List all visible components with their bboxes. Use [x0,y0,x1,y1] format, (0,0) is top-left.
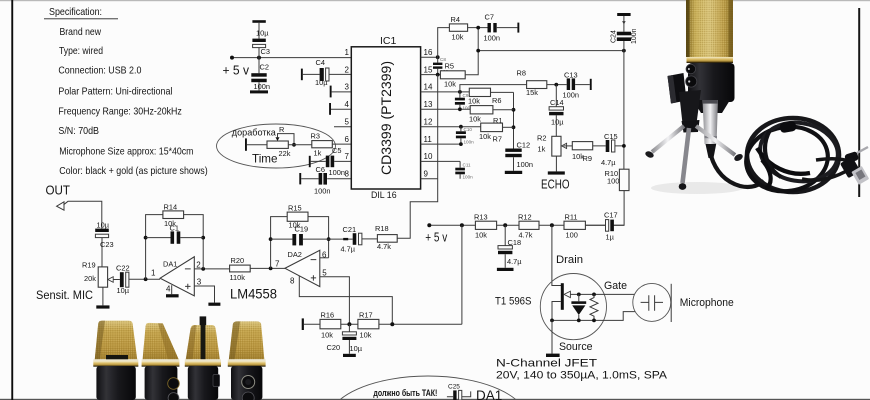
svg-text:8: 8 [290,277,295,286]
svg-text:7: 7 [275,259,280,268]
svg-text:5: 5 [345,118,350,127]
XLR cable tail [706,144,717,158]
resistor R6 10k (pin 14) [468,88,501,105]
ground (DA1 pin4) [166,294,179,297]
svg-text:Microphone: Microphone [680,297,734,309]
label должно быть ТАК! [373,388,437,398]
svg-text:C22: C22 [116,264,130,273]
svg-text:13: 13 [424,100,433,109]
svg-text:DIL 16: DIL 16 [371,190,397,200]
capacitor C10 100n (pins 12-11) [456,127,474,145]
ground (C2) [250,90,268,93]
photo: four microphones group [93,316,265,400]
svg-text:ECHO: ECHO [541,177,570,192]
ground (source) [546,354,560,357]
mic 4 front [228,321,266,400]
junction drain node [550,223,554,227]
wire DA2 pin5 [320,277,350,325]
resistor (gate zigzag) [590,294,598,320]
junction pot wiper node [292,143,296,147]
svg-text:C12: C12 [517,140,531,149]
svg-text:10k: 10k [479,132,491,141]
svg-text:10k: 10k [452,33,464,42]
microphone capsule circle [633,283,671,321]
svg-text:22k: 22k [279,149,291,158]
svg-text:10µ: 10µ [315,78,328,87]
wire pin13 resistor right [493,109,514,111]
svg-text:7: 7 [345,152,350,161]
label DA1 (ellipse) [476,388,502,400]
capacitor C12 100n [505,140,533,171]
svg-text:10k: 10k [469,114,481,123]
capacitor C1 [146,224,204,244]
svg-text:15: 15 [424,65,433,74]
svg-text:Microphone Size approx: 15*40c: Microphone Size approx: 15*40cm [59,147,193,158]
label N-Channel JFET [496,358,597,370]
label Source [559,341,593,353]
capacitor C21 4.7µ [341,225,378,254]
wire pot to R3 [288,144,312,146]
svg-text:C2: C2 [260,63,269,72]
svg-text:4.7k: 4.7k [377,242,391,251]
svg-text:R9: R9 [583,154,592,163]
wire R19 bottom to ground [102,287,104,305]
resistor R17 10k [358,310,379,339]
svg-text:C23: C23 [100,240,114,249]
terminal bar (pin 4) [329,103,331,115]
svg-text:4.7µ: 4.7µ [507,257,522,266]
svg-text:100n: 100n [463,175,474,180]
wire +5v rail to pin 1 [230,56,351,60]
op-amp IC1 CD3399 (PT2399) [351,35,420,200]
transistor T1 JFET channel [552,283,564,320]
resistor R13 10k [474,212,497,239]
mic 1 front [93,321,138,400]
gold ring [687,57,734,62]
resistor R10 100 [605,169,630,191]
wire C21 line from C19 node [329,238,353,240]
potentiometer R 22k [267,125,294,158]
wire pin 3 [332,91,352,93]
svg-text:C25: C25 [448,383,460,390]
svg-text:Gate: Gate [604,280,627,292]
label T1 596S [495,295,532,307]
resistor 10k (pin 13) [469,106,493,124]
svg-text:DA1: DA1 [476,388,502,400]
wire pin 9 to R18 (echo return) [397,75,438,239]
resistor R15 10k [287,203,308,229]
ground (C20) [343,354,356,357]
svg-text:100n: 100n [484,34,500,43]
svg-text:R2: R2 [537,134,546,143]
svg-text:10k: 10k [321,330,333,339]
wire pin 12 to R1 [421,125,481,129]
svg-text:R19: R19 [82,261,96,270]
svg-text:14: 14 [424,83,433,92]
svg-text:10: 10 [424,152,433,161]
junction gate nodes [577,293,596,297]
wire OUT to C23 [64,201,102,228]
svg-text:LM4558: LM4558 [230,285,277,301]
resistor R14 10k [163,202,184,228]
resistor R16 10k [320,310,341,339]
op-amp DA1 [151,257,202,296]
tripod leg front [683,128,690,183]
svg-text:DA1: DA1 [163,260,177,269]
terminal bar (C6 input) [299,173,301,184]
potentiometer R2 1k [537,134,572,157]
microphone side electrode bar [670,284,672,322]
wire pot R input [247,144,267,146]
svg-text:R: R [279,125,284,134]
pin numbers 16-9 [424,48,433,179]
label Microphone [680,297,734,309]
capacitor C8 100n (pins 16-15) [433,57,451,75]
wire DA2 pin6 [320,257,329,259]
body bottom taper [693,100,730,113]
svg-text:Time: Time [252,152,278,166]
wire R1 right [503,126,514,128]
svg-text:10µ: 10µ [256,29,269,38]
svg-text:11: 11 [424,135,433,144]
capacitor C2 100n [251,58,270,91]
capacitor C11 100n (pins 10-9) [455,161,473,179]
wire pin 15 to R5 [421,73,441,77]
resistor R4 10k [449,15,467,42]
resistor R12 4.7k [518,212,539,239]
svg-text:Brand new: Brand new [60,27,102,38]
node OUT [46,182,71,197]
terminal bar (pot R input) [245,138,247,150]
svg-text:IC1: IC1 [380,35,397,47]
terminal bar (R16 input) [302,318,304,330]
capacitor C3 10µ [252,20,270,57]
svg-text:Polar Pattern: Uni-directional: Polar Pattern: Uni-directional [58,87,172,98]
floor shadow [651,182,743,194]
svg-text:100: 100 [607,177,619,186]
svg-text:R8: R8 [517,69,526,78]
svg-text:1: 1 [151,269,156,278]
svg-text:1k: 1k [538,145,546,154]
capacitor C15 4.7µ [593,132,624,167]
ground (C12) [505,171,522,174]
capacitor C4 10µ [315,58,329,87]
resistor R5 10k [440,62,465,89]
svg-text:10k: 10k [468,97,480,106]
mic 3 rear [185,316,221,400]
label Gate [604,280,627,292]
ellipse должно быть ТАК [328,376,528,400]
svg-text:Sensit. MIC: Sensit. MIC [36,290,93,302]
wire source to ground [551,320,553,353]
bottom page border [0,399,870,400]
left page border [11,0,13,400]
svg-text:Color: black + gold (as pictur: Color: black + gold (as picture shows) [59,166,208,177]
resistor R11 100 [564,212,585,239]
svg-text:OUT: OUT [46,182,71,197]
specification text block [44,7,208,177]
holder clamp [668,73,687,104]
holder cone [679,90,701,128]
svg-text:R11: R11 [565,212,578,221]
wire pin 16 up to R4 [438,28,450,58]
svg-text:должно быть ТАК!: должно быть ТАК! [373,388,437,398]
svg-text:C7: C7 [485,13,494,22]
capacitor C5 100n [326,146,345,177]
svg-text:10k: 10k [444,79,456,88]
wire pin 13 to resistor [421,107,471,111]
svg-text:R6: R6 [492,96,501,105]
svg-text:2: 2 [345,65,350,74]
junction C3/C2 node [257,56,261,60]
wire +5v mic bias rail [427,223,624,227]
svg-text:4: 4 [345,100,350,109]
svg-text:R17: R17 [359,310,373,319]
3.5mm jack plug [844,147,868,164]
capacitor C17 1µ [585,210,617,241]
wire DA1 feedback left [144,215,163,280]
cable to plugs [816,159,852,162]
wire DA1 pin2 output [194,267,229,271]
tripod hub [682,120,700,133]
svg-text:R4: R4 [451,15,460,24]
svg-text:4: 4 [166,285,171,294]
svg-text:R5: R5 [445,62,454,71]
right photo border [858,8,860,197]
cable knot strands [757,148,810,174]
capacitor C6 100n [314,165,330,195]
wire DA2 pin8 [299,276,392,324]
junction R16/R17/C20 nodes [347,322,394,326]
svg-text:Type: wired: Type: wired [59,46,103,57]
svg-text:R7: R7 [493,135,502,144]
svg-text:1: 1 [345,48,350,57]
wire pin 14 node [421,90,470,94]
terminal bar (C4 input) [301,69,303,81]
svg-text:C19: C19 [295,224,309,233]
mic head gold mesh [686,0,733,57]
transistor T1 circle [540,274,606,340]
svg-text:8: 8 [345,170,350,179]
svg-text:6: 6 [345,135,350,144]
svg-text:R3: R3 [311,132,320,141]
resistor R3 1k [311,132,333,158]
terminal bar (C13 right) [590,79,592,90]
USB plug [840,157,869,185]
tripod leg left [652,126,684,152]
svg-text:C1: C1 [170,224,179,233]
node +5v (middle) [425,229,447,244]
svg-text:C10: C10 [464,127,473,132]
svg-text:C6: C6 [316,165,325,174]
ground (C18) [497,268,514,271]
svg-text:C13: C13 [564,70,578,79]
wire drain vertical [552,225,561,285]
cable from XLR [711,156,764,187]
svg-text:R16: R16 [321,310,335,319]
svg-text:10µ: 10µ [97,220,110,229]
wire bus (pins 14-13-12 mix node) [512,92,516,148]
svg-text:Source: Source [559,341,593,353]
svg-text:100: 100 [566,230,578,239]
wire R4 to C7 [468,26,488,30]
svg-text:4.7k: 4.7k [519,230,533,239]
svg-text:C14: C14 [550,98,564,107]
terminal bar (C7 right) [517,23,519,33]
capacitor C14 10µ [549,85,564,137]
wire DA2 feedback left [269,217,288,269]
svg-text:9: 9 [424,170,429,179]
svg-text:C5: C5 [332,146,341,155]
svg-text:2: 2 [196,261,201,270]
resistor R18 4.7k [375,224,397,251]
svg-text:10µ: 10µ [350,344,363,353]
node +5v (top left) [223,63,250,78]
ground (DA1 pin3) [208,303,220,306]
svg-text:R12: R12 [518,212,532,221]
wire pin 14 to R8 [460,85,527,92]
capacitor C13 100n [563,70,590,99]
wire pin 7 [311,160,352,162]
svg-text:C17: C17 [604,210,618,219]
ellipse доработка (Time mod) [217,124,336,168]
svg-text:CD3399 (PT2399): CD3399 (PT2399) [379,61,394,175]
wire +5v distribution rail (upper) [476,49,625,53]
photo: USB microphone on tripod [644,0,869,197]
svg-text:1µ: 1µ [606,232,615,241]
wire R3 to pin 6 [332,143,351,145]
wire echo supply vertical [622,51,626,170]
cable joiner [779,121,796,134]
terminal bar (C5 input) [309,156,311,167]
svg-text:100n: 100n [563,91,579,100]
JFET gate arrow [564,291,635,297]
resistor R1 10k (pin 12) [479,116,503,143]
svg-text:Drain: Drain [556,254,583,266]
wire R10 to C17 [614,191,625,226]
tripod leg right [696,126,735,155]
junction C18 node [503,223,507,227]
svg-text:DA2: DA2 [288,250,302,259]
svg-text:S/N: 70dB: S/N: 70dB [58,126,99,137]
svg-text:3: 3 [345,83,350,92]
label LM4558 [230,285,277,301]
svg-text:R1: R1 [493,116,502,125]
wire R16 line [304,323,462,325]
capacitor C18 4.7µ [498,225,522,267]
svg-text:C20: C20 [327,343,341,352]
resistor R8 15k [517,69,547,98]
capacitor C23 10µ [95,220,113,267]
wire R19 wiper to C22 [113,279,120,281]
svg-text:10µ: 10µ [117,286,130,295]
svg-text:100n: 100n [631,28,638,44]
svg-text:Connection: USB 2.0: Connection: USB 2.0 [58,66,141,77]
wire DA1 pin4 stub [171,285,173,294]
cable coils [747,118,839,192]
wire source rail [550,312,635,323]
resistor R9 10k [572,142,593,163]
label ECHO [541,177,570,192]
junction R17 feed node [460,223,464,227]
terminal bar (pin 3) [330,86,332,98]
capacitor C24 100n [611,13,639,51]
XLR connector silver [703,100,719,144]
svg-text:R20: R20 [231,256,245,265]
svg-text:C24: C24 [611,30,618,43]
resistor R20 110k [230,256,251,282]
svg-text:16: 16 [424,48,433,57]
capacitor C9 100n (pins 14-13) [455,92,473,111]
label Sensit. MIC [36,290,93,302]
svg-text:C18: C18 [508,238,522,247]
svg-text:C15: C15 [604,132,618,141]
capacitor C20 10µ [327,324,363,354]
output jack terminal [57,202,64,210]
wire R5 right to R4/C7 node [465,28,478,75]
svg-text:C21: C21 [343,225,357,234]
svg-text:110k: 110k [230,273,246,282]
svg-text:R13: R13 [474,212,488,221]
svg-text:Specification:: Specification: [49,7,102,18]
svg-text:100n: 100n [517,160,533,169]
ground (R19) [96,305,109,308]
wire pin 11 [421,142,463,146]
wire R2 bottom to ground [555,156,557,171]
svg-text:C3: C3 [261,47,270,56]
svg-text:R15: R15 [288,203,302,212]
capacitor C7 100n [484,13,518,43]
svg-text:доработка: доработка [232,127,277,138]
svg-text:3: 3 [197,278,202,287]
black body [688,63,735,102]
svg-text:12: 12 [424,118,433,127]
svg-text:10k: 10k [360,330,372,339]
op-amp DA2 [275,250,327,287]
svg-text:+ 5 v: + 5 v [223,63,250,78]
wire pin 2 [303,73,352,75]
junction DA1 pin1 node [144,277,148,281]
svg-text:15k: 15k [526,88,538,97]
wire R14 right [184,215,206,269]
wire pin 5 stub [334,126,351,128]
svg-text:C4: C4 [316,58,325,67]
knob 1 [686,64,696,74]
svg-text:T1 596S: T1 596S [495,295,532,307]
wire R20 to DA2 pin7 [250,267,285,271]
svg-text:100n: 100n [329,168,345,177]
top page border [0,0,870,1]
svg-text:Frequency Range: 30Hz-20kHz: Frequency Range: 30Hz-20kHz [58,107,181,118]
svg-text:100n: 100n [314,186,330,195]
svg-text:R14: R14 [164,202,178,211]
ground (R2) [548,171,565,174]
pin numbers 1-8 [345,48,350,179]
svg-text:R18: R18 [375,224,389,233]
svg-text:C11: C11 [463,163,472,168]
wire pin 16 stub [421,55,440,59]
svg-text:100n: 100n [254,82,270,91]
wire R6 right to bus [491,91,514,93]
svg-text:N-Channel JFET: N-Channel JFET [496,358,597,370]
svg-text:4.7µ: 4.7µ [341,244,356,253]
capacitor C25 [447,383,471,400]
wire pin 4 [331,108,351,110]
capacitor C22 10µ [116,264,160,295]
label JFET specs [496,369,668,381]
wire R15 right [308,217,331,258]
capacitor C19 [271,224,329,245]
